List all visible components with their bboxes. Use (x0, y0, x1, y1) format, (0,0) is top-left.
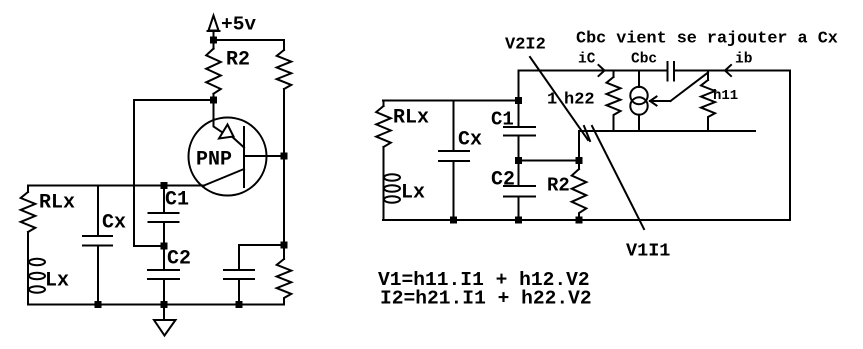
svg-text:h11: h11 (713, 88, 738, 104)
wire top rail h section right (674, 70, 790, 72)
resistor RLx equivalent (376, 106, 391, 147)
wire emitter lead (214, 100, 223, 133)
inductor Lx equivalent (384, 172, 401, 220)
wire right branch vertical (283, 89, 285, 259)
resistor R2 (206, 49, 221, 94)
svg-text:I2=h21.I1 + h22.V2: I2=h21.I1 + h22.V2 (380, 288, 592, 310)
arrow ib (725, 65, 731, 76)
svg-text:iC: iC (578, 52, 596, 68)
label 1/h22 (547, 91, 595, 110)
svg-text:RLx: RLx (393, 107, 429, 130)
node C1 top junction dot right (515, 97, 522, 104)
wire RLx to Lx (27, 232, 29, 256)
resistor bias upper (right branch) (277, 40, 292, 89)
node RLx top corner (383, 101, 385, 107)
svg-text:C2: C2 (167, 248, 191, 271)
wire R2 bottom lead (213, 94, 215, 100)
node Cx bottom junction dot (95, 301, 102, 308)
capacitor C2 equivalent (504, 161, 535, 221)
wire R2 node riser (578, 131, 580, 161)
node C1C2 junction dot (161, 243, 168, 250)
wire collector rail (28, 185, 204, 187)
power +5v symbol (208, 16, 220, 41)
arrow iC (599, 65, 605, 76)
wire bottom rail right circuit (383, 219, 790, 221)
node VCC junction dot (210, 37, 217, 44)
transistor Q1 emitter arrow (219, 125, 234, 139)
wire mid rail (579, 130, 755, 132)
capacitor Cx equivalent (439, 101, 469, 221)
svg-text:RLx: RLx (39, 192, 75, 215)
capacitor C1 equivalent (504, 101, 535, 161)
svg-text:R2: R2 (547, 175, 570, 197)
resistor RLx (21, 192, 36, 232)
wire 1/h22 top lead (613, 71, 615, 78)
svg-text:Cx: Cx (458, 129, 482, 152)
node C2 bottom junction dot (161, 301, 168, 308)
current source h21.I1 (630, 71, 647, 132)
node C1 top junction dot (161, 182, 168, 189)
svg-text:h22: h22 (564, 91, 595, 110)
svg-text:ib: ib (735, 52, 753, 68)
svg-text:C1: C1 (165, 189, 189, 212)
wire RLx to Lx equivalent (383, 147, 385, 172)
svg-text:PNP: PNP (196, 149, 232, 172)
capacitor C2 (148, 246, 179, 305)
capacitor Cbc (668, 62, 675, 81)
inductor Lx (28, 256, 45, 305)
transistor Q1 base bar (243, 127, 245, 187)
annotation tick at node (584, 126, 590, 141)
wire feedback to C1C2 node (134, 245, 164, 247)
annotation line V2I2 pointer (530, 57, 588, 140)
svg-text:Cbc vient se rajouter a Cx: Cbc vient se rajouter a Cx (576, 30, 838, 49)
svg-text:C1: C1 (491, 109, 514, 131)
resistor 1/h22 (607, 77, 621, 131)
node bias divider junction dot (281, 242, 288, 249)
node emitter junction dot (210, 97, 217, 104)
node R2 bottom junction dot right (576, 217, 583, 224)
capacitor bypass (224, 245, 254, 305)
wire collector diagonal (204, 169, 244, 186)
svg-text:R2: R2 (226, 49, 250, 72)
wire left branch top lead (27, 186, 29, 193)
svg-text:Lx: Lx (45, 270, 69, 293)
svg-text:V2I2: V2I2 (505, 36, 546, 55)
arrow current source control (650, 73, 708, 106)
capacitor C1 (149, 186, 179, 247)
svg-text:+5v: +5v (221, 14, 256, 36)
wire base lead (244, 155, 284, 157)
wire V1 node to R2 (519, 160, 580, 162)
svg-text:Cbc: Cbc (631, 52, 657, 68)
svg-text:V1I1: V1I1 (626, 241, 670, 262)
node bypass cap bottom junction dot (236, 301, 243, 308)
svg-text:Lx: Lx (401, 182, 425, 205)
resistor bias lower (277, 259, 292, 305)
wire C1 riser (518, 71, 520, 101)
svg-text:Cx: Cx (102, 212, 126, 235)
node Cx bottom junction dot right (450, 217, 457, 224)
wire top rail right circuit (383, 100, 519, 102)
wire feedback left (134, 99, 214, 101)
transistor Q1 body (189, 118, 267, 196)
node C2 bottom junction dot right (515, 217, 522, 224)
resistor R2 equivalent (572, 161, 587, 221)
node R2 top junction dot (576, 157, 583, 164)
wire right edge (789, 71, 791, 221)
wire bottom rail left circuit (28, 304, 283, 306)
node V1 junction dot (515, 157, 522, 164)
annotation line V1I1 pointer (592, 126, 644, 229)
svg-text:C2: C2 (491, 169, 515, 192)
wire top rail left circuit (214, 39, 285, 41)
capacitor Cx (83, 186, 112, 305)
wire top rail h section left (519, 70, 668, 72)
resistor h11 (701, 71, 715, 132)
wire R2 top lead (213, 40, 215, 49)
wire bypass cap top (239, 244, 284, 246)
node base junction dot (281, 153, 288, 160)
wire feedback down (133, 100, 135, 246)
wire emitter to bar (233, 138, 244, 148)
ground (154, 305, 176, 336)
